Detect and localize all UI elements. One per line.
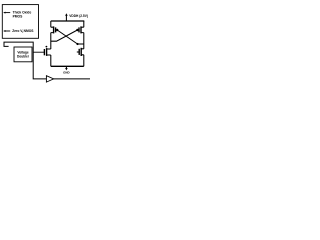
- svg-text:VDDH (2.5V): VDDH (2.5V): [69, 14, 88, 18]
- svg-text:Doubler: Doubler: [17, 55, 30, 59]
- svg-text:NMOS: NMOS: [24, 29, 35, 33]
- svg-text:GND: GND: [63, 71, 69, 75]
- svg-text:PMOS: PMOS: [13, 14, 24, 18]
